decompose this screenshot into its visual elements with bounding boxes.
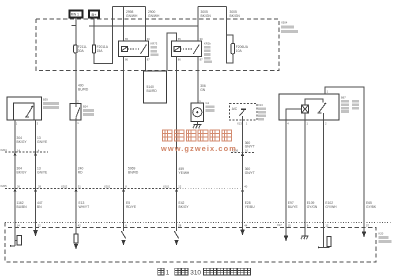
- top bus wire to 2998/2900 drops: [113, 5, 146, 7]
- svg-text:KR73: KR73: [151, 42, 158, 46]
- ECM internal switch and arrow on pin28: [174, 231, 179, 246]
- svg-text:14: 14: [17, 148, 20, 152]
- svg-text:X13: X13: [258, 103, 263, 107]
- svg-text:KR2b: KR2b: [204, 42, 211, 46]
- svg-text:42: 42: [78, 224, 81, 228]
- svg-text:310: 310: [190, 270, 201, 277]
- ECM pin numbers: [17, 223, 370, 228]
- B67 thermistor symbol: [318, 103, 327, 113]
- B67 bottom pin numbers 4 1 2: [287, 122, 327, 126]
- svg-text:GN/YE: GN/YE: [37, 140, 48, 144]
- wire B39 pin1 down to ECM (304 BK/GY): [14, 120, 16, 231]
- ECM connector dotted line: [5, 222, 392, 224]
- label 304 BK/GY lower: [17, 167, 28, 175]
- A/C request switch S13 dashed box: [230, 104, 258, 121]
- relay KR73 pin numbers 65 30 86 87: [125, 37, 150, 61]
- svg-text:GY/WH: GY/WH: [325, 205, 337, 209]
- label 2900 GN/WH: [148, 10, 160, 18]
- svg-text:R/N 1: R/N 1: [71, 13, 79, 17]
- label 5069 BN/RD: [128, 167, 139, 175]
- svg-text:BU/RD: BU/RD: [147, 89, 158, 93]
- splice tick on B+ wire: [89, 25, 94, 27]
- svg-text:GN/YT: GN/YT: [245, 145, 255, 149]
- svg-text:BK/GN: BK/GN: [230, 14, 241, 18]
- ECM arrow on pin57: [362, 231, 367, 237]
- svg-text:X204: X204: [0, 148, 7, 152]
- label E5 RD/YE: [126, 201, 137, 209]
- svg-text:RD: RD: [78, 170, 83, 174]
- svg-text:65: 65: [125, 37, 128, 41]
- label E97 BU/YE: [288, 201, 299, 209]
- compressor clutch G1: [191, 103, 204, 122]
- svg-text:BN: BN: [37, 205, 42, 209]
- splice tick on R/N1 wire: [72, 25, 77, 27]
- svg-text:RD/YE: RD/YE: [126, 205, 137, 209]
- label 3005 BK/GN (left): [201, 10, 212, 18]
- relay KR73: [119, 41, 149, 57]
- power feed B+ box: [89, 11, 99, 18]
- svg-text:X202: X202: [61, 184, 68, 188]
- label 2998 GN/WH: [126, 10, 138, 18]
- wire 3005 top bus: [198, 5, 227, 7]
- ECM internal resistor and arrow on pin42: [74, 231, 78, 250]
- label 13 GN/YE lower: [37, 167, 48, 175]
- svg-text:BK/GN: BK/GN: [201, 14, 212, 18]
- svg-text:BU/YE: BU/YE: [288, 205, 299, 209]
- svg-text:31: 31: [78, 184, 81, 188]
- ECM internal switch and arrow on pin6: [121, 231, 126, 246]
- svg-text:10: 10: [245, 149, 248, 153]
- svg-text:A/C: A/C: [232, 107, 238, 111]
- label E13 WH/YT: [79, 201, 90, 209]
- wire B67 pin1 down to ECM ground (E109 GY/GN): [304, 120, 306, 236]
- svg-text:BK/GY: BK/GY: [179, 205, 190, 209]
- wire B67 pin4 down to ECM (E97 BU/YE): [285, 120, 287, 236]
- relay KR2b pin numbers 65 30 86 87: [178, 37, 203, 61]
- ECM ground on pin9: [301, 236, 309, 239]
- wire S13 down to ECM (360 GN/YT): [242, 120, 244, 230]
- svg-text:28: 28: [178, 224, 181, 228]
- svg-text:44: 44: [244, 224, 247, 228]
- wire B24 pin1 down to ECM (240 RD): [75, 120, 77, 233]
- junction riser dot: [112, 25, 114, 27]
- label E42 BK/GY: [179, 201, 190, 209]
- harness box 5140 BU/RD: [144, 71, 167, 103]
- B24 pin numbers 2 1: [77, 100, 79, 126]
- wire bridge loop relay KR2b pin 65: [167, 33, 177, 71]
- label K20 发动机控制模块: [379, 232, 392, 243]
- svg-text:40: 40: [244, 184, 247, 188]
- svg-text:G1: G1: [206, 101, 210, 105]
- label 360 GN/YT lower: [245, 167, 255, 175]
- svg-text:87: 87: [200, 57, 203, 61]
- wire F2011A output loop down-right-up riser: [94, 6, 113, 63]
- svg-text:65: 65: [178, 37, 181, 41]
- label E109 GY/GN: [307, 201, 318, 209]
- label 459 YE/WH: [179, 167, 190, 175]
- pressure sensor B39: [7, 97, 42, 120]
- svg-text:14: 14: [17, 224, 20, 228]
- svg-text:BK/GY: BK/GY: [17, 140, 28, 144]
- svg-text:YE/BU: YE/BU: [245, 205, 256, 209]
- B39 pin numbers 1 3: [16, 121, 39, 125]
- svg-text:15: 15: [288, 224, 291, 228]
- label KR73 冷却风扇继电器: [151, 42, 159, 57]
- fuse F206UA: [231, 44, 234, 54]
- svg-text:BK/GY: BK/GY: [17, 170, 28, 174]
- evaporator sensor B67 box: [279, 94, 339, 120]
- svg-text:X101: X101: [163, 184, 170, 188]
- label B24 空调压力开关: [83, 105, 94, 116]
- svg-text:X205: X205: [0, 184, 7, 188]
- wire 2900 GN/WH drop to relay KR73 pin 30: [145, 6, 147, 41]
- power feed R/N 1 box: [70, 11, 83, 18]
- svg-text:1: 1: [166, 270, 170, 277]
- svg-text:12: 12: [325, 224, 328, 228]
- svg-text:GN: GN: [200, 88, 206, 92]
- ECM K20 dashed boundary: [5, 223, 376, 263]
- label 360 GN/YT upper: [245, 141, 255, 149]
- svg-text:X13: X13: [237, 121, 242, 125]
- wire relay KR2b pin87 down to compressor G1 (306 GN): [197, 57, 199, 104]
- label 304 BK/GY upper: [17, 136, 28, 144]
- label F206UA 10A: [236, 45, 249, 53]
- label 240 RD: [78, 167, 84, 175]
- svg-text:15A: 15A: [97, 49, 104, 53]
- ECM internal arrow on pin32: [33, 230, 38, 236]
- ground below G1: [193, 122, 201, 129]
- svg-text:86: 86: [125, 57, 128, 61]
- svg-text:57: 57: [366, 224, 369, 228]
- svg-text:K20: K20: [379, 232, 384, 236]
- label B67 蒸发器温度传感器: [341, 95, 359, 112]
- svg-text:30: 30: [200, 37, 203, 41]
- wire 2998 GN/WH drop to relay KR73 pin 65: [123, 6, 125, 41]
- wire F211L output down (400 BU/RD) to B24: [75, 53, 77, 104]
- label 3005 BK/GN (right): [230, 10, 241, 18]
- label E65 GY/BK: [366, 201, 377, 209]
- label G1 空调压缩机: [206, 101, 215, 112]
- svg-text:30: 30: [147, 37, 150, 41]
- label F2011A 15A: [97, 45, 109, 53]
- svg-text:10A: 10A: [236, 49, 243, 53]
- svg-text:WH/YT: WH/YT: [79, 205, 90, 209]
- S13 bottom pin X13 1: [237, 121, 248, 125]
- svg-text:GN/WH: GN/WH: [126, 14, 138, 18]
- svg-text:B39: B39: [43, 98, 48, 102]
- svg-text:GY/GN: GY/GN: [307, 205, 318, 209]
- label 447 BN: [37, 201, 43, 209]
- connector X206: [231, 149, 254, 156]
- svg-text:BU/BN: BU/BN: [17, 205, 28, 209]
- caption 图1 宝骏310空调压缩机电路: [158, 268, 251, 275]
- pressure switch B24: [70, 104, 81, 121]
- svg-text:GY/BK: GY/BK: [366, 205, 377, 209]
- label E28 YE/BU: [245, 201, 256, 209]
- svg-text:X504: X504: [281, 21, 288, 25]
- svg-text:GN/WH: GN/WH: [148, 14, 160, 18]
- B67 internal wiring: [286, 99, 324, 120]
- svg-text:YE/WH: YE/WH: [179, 171, 190, 175]
- label KR2b 空调压缩机离合器继电器: [204, 42, 212, 64]
- fuse box X504 dashed boundary: [36, 19, 279, 71]
- fuse F2011A: [92, 45, 95, 53]
- svg-text:BN/RD: BN/RD: [128, 170, 139, 174]
- svg-text:GN/YE: GN/YE: [37, 170, 48, 174]
- svg-text:28: 28: [38, 184, 41, 188]
- svg-text:26: 26: [17, 184, 20, 188]
- svg-text:GN/YT: GN/YT: [245, 171, 255, 175]
- svg-text:30A: 30A: [78, 49, 85, 53]
- wire relay KR2b pin86 down to ECM (459 YE/WH): [176, 57, 178, 232]
- wire relay KR73 pin87 down to 5140 box: [145, 57, 147, 72]
- svg-text:86: 86: [178, 57, 181, 61]
- label B39 空调冷媒压力传感器: [43, 98, 59, 109]
- label X13 暖风通风与空调控制模块: [258, 103, 266, 120]
- svg-text:X201: X201: [104, 184, 111, 188]
- ECM internal sensor load on pin14: [10, 231, 22, 247]
- relay KR2b: [172, 41, 202, 57]
- B67 heater element crossed square: [302, 105, 309, 113]
- watermark 精通维修下载: [163, 130, 232, 141]
- node X504 label 熔丝盒-发动机舱盖下: [281, 21, 298, 34]
- ECM arrow on pin15: [284, 235, 289, 241]
- label 400 BU/RD: [78, 84, 89, 92]
- svg-text:B+: B+: [92, 12, 98, 17]
- wire B+ down to fuse F2011A: [93, 18, 95, 45]
- wire relay KR73 pin86 down to ECM (5069 BN/RD): [123, 57, 125, 232]
- connector line X205 X202 X201 X101: [0, 184, 247, 191]
- wire R/N1 down to fuse F211L: [75, 18, 77, 45]
- label 306 GN: [200, 84, 206, 92]
- svg-text:B24: B24: [83, 105, 88, 109]
- ECM arrow on pin44: [240, 229, 245, 235]
- wire fuse F206UA loop: [227, 35, 233, 63]
- wire B67 top pin loop to ECM pin 57: [325, 87, 364, 232]
- wire B67 pin2 down into ECM (E102 GY/WH): [323, 120, 325, 248]
- svg-text:12: 12: [178, 184, 181, 188]
- wire 3005 BK/GN drop1 to relay KR2b pin30: [197, 6, 199, 41]
- svg-text:87: 87: [147, 57, 150, 61]
- label 13 GN/YE upper: [37, 136, 48, 144]
- svg-text:32: 32: [38, 224, 41, 228]
- svg-text:X17: X17: [277, 223, 282, 227]
- svg-text:www.gzweix.com: www.gzweix.com: [160, 144, 237, 153]
- wire 3005 BK/GN drop2 to fuse loop: [226, 6, 228, 35]
- B+ bus wire to relays: [89, 25, 198, 27]
- label 1162 BU/BN: [17, 201, 28, 209]
- fuse F211L: [74, 45, 77, 53]
- connector X204: [0, 148, 48, 155]
- label E102 GY/WH: [325, 201, 337, 209]
- wire B39 pin3 down to ECM (13 GN/YE): [35, 120, 37, 230]
- svg-text:B67: B67: [341, 95, 346, 99]
- label F211L 30A: [78, 45, 87, 53]
- ECM internal load on pin12: [318, 236, 331, 248]
- svg-text:BU/RD: BU/RD: [78, 87, 89, 91]
